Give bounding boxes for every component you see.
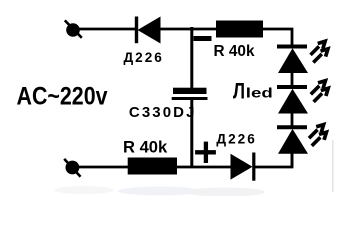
svg-text:R 40k: R 40k <box>214 43 255 60</box>
svg-text:AC~220v: AC~220v <box>17 83 108 111</box>
svg-text:Л: Л <box>233 78 245 103</box>
svg-text:led: led <box>246 84 273 100</box>
svg-text:R 40k: R 40k <box>123 139 168 157</box>
svg-text:Д226: Д226 <box>124 50 164 65</box>
svg-text:Д226: Д226 <box>216 132 256 147</box>
svg-text:C330DJ: C330DJ <box>129 104 197 121</box>
